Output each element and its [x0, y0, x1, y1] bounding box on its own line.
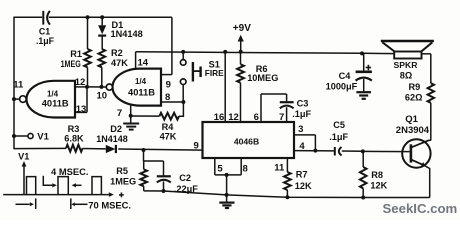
speaker SPKR 8 ohm [381, 41, 434, 80]
dimension 4 MSEC label and arrows [43, 166, 88, 188]
node junction C2 ground bus [162, 189, 166, 193]
svg-text:1N4148: 1N4148 [96, 134, 128, 144]
gate U1b ground pin 7 stub [117, 106, 131, 119]
wire gate U1a output to left rail [14, 98, 20, 100]
svg-text:13: 13 [76, 104, 87, 115]
svg-text:9: 9 [166, 80, 171, 91]
svg-text:1/4: 1/4 [135, 77, 147, 86]
node junction +9V rail R6 [239, 50, 243, 54]
node junction R2 bottom [100, 85, 104, 89]
svg-text:4046B: 4046B [234, 136, 259, 146]
resistor R1 [61, 17, 91, 87]
svg-text:12K: 12K [370, 180, 387, 190]
svg-text:C5: C5 [333, 120, 345, 130]
waveform V1 vertical axis arrow [22, 161, 27, 194]
svg-text:70 MSEC.: 70 MSEC. [88, 200, 131, 211]
svg-text:.1μF: .1μF [292, 109, 311, 119]
svg-text:8: 8 [165, 92, 170, 103]
wire left rail vertical [13, 17, 15, 150]
power +9V supply arrow [233, 23, 251, 52]
waveform V1 axis label [18, 151, 29, 161]
svg-text:47K: 47K [160, 132, 177, 142]
wire 4046B pin 16 to +9V rail [224, 52, 226, 122]
svg-text:7: 7 [279, 112, 284, 123]
svg-text:C1: C1 [39, 26, 50, 36]
node junction pin 8 / S1 / R4 [181, 100, 185, 104]
svg-text:R1: R1 [70, 49, 82, 59]
wire 4046B pin 3 to pin 4 [294, 135, 315, 151]
resistor R4 47K [131, 102, 184, 142]
gate U1b input pin 8 [161, 92, 183, 103]
svg-text:V1: V1 [37, 132, 49, 143]
wire 4046B pins 5 and 8 jumper [215, 158, 241, 175]
op-gate U1a NAND 4011B (mirrored) [26, 81, 75, 118]
waveform pulse 1 [27, 177, 36, 195]
node junction R8 ground bus [361, 196, 365, 200]
resistor R2 [99, 48, 129, 87]
node junction Q1 base R8 C5 [361, 149, 365, 153]
gate U1a output bubble pin 11 [13, 79, 26, 102]
node junction C4 on rail [360, 51, 364, 55]
svg-text:R9: R9 [409, 82, 421, 92]
svg-text:10MEG: 10MEG [247, 73, 278, 83]
svg-text:FIRE: FIRE [205, 68, 224, 78]
svg-text:4011B: 4011B [42, 99, 69, 109]
wire tie bar pins 12-13 [86, 87, 88, 113]
wire ground bus [144, 191, 430, 198]
svg-text:2N3904: 2N3904 [396, 125, 430, 136]
svg-text:12: 12 [75, 77, 86, 88]
node junction top rail R1 [86, 15, 90, 19]
op-gate U1b NAND 4011B (mirrored) [113, 69, 161, 106]
svg-text:11: 11 [13, 79, 24, 90]
resistor R9 62 ohm [405, 82, 434, 141]
waveform baseline with arrow [3, 192, 124, 197]
svg-text:10: 10 [97, 90, 108, 101]
svg-text:7: 7 [117, 108, 122, 119]
node junction ground bus [225, 193, 229, 197]
gate U1b output bubble pin 10 [97, 84, 113, 101]
svg-text:R7: R7 [296, 170, 308, 180]
resistor R3 6.8K [64, 124, 84, 152]
svg-text:.22μF: .22μF [174, 184, 198, 194]
waveform pulse 3 [92, 177, 101, 195]
node junction left rail gate output [12, 97, 16, 101]
node junction top rail D1 [100, 15, 104, 19]
resistor R6 10MEG [237, 52, 278, 122]
svg-text:3: 3 [298, 124, 303, 135]
wire bottom row R3-D2 to 4046B pin 9 [14, 148, 203, 150]
svg-text:47K: 47K [111, 58, 128, 68]
gate U1b power pin 14 stub to +9V rail [136, 52, 149, 69]
svg-text:C3: C3 [297, 99, 309, 109]
svg-text:6.8K: 6.8K [64, 134, 84, 144]
svg-text:8: 8 [243, 164, 248, 175]
capacitor C5 .1uF [329, 120, 363, 155]
svg-text:R5: R5 [116, 166, 128, 176]
svg-text:C2: C2 [179, 173, 191, 183]
svg-text:1/4: 1/4 [47, 89, 59, 98]
svg-text:R4: R4 [162, 122, 175, 132]
wire +9V rail [136, 52, 395, 54]
wire pin12 to gate2 output [87, 86, 106, 88]
svg-text:4011B: 4011B [128, 88, 155, 98]
svg-text:12: 12 [228, 112, 239, 123]
ground symbol below C4 [356, 92, 371, 99]
capacitor C3 .1uF between pins 6 and 7 [261, 94, 311, 122]
node junction jumper center [225, 173, 229, 177]
IC U2 4046B [194, 112, 306, 174]
svg-text:1N4148: 1N4148 [111, 29, 143, 39]
svg-text:C4: C4 [339, 71, 352, 81]
gate U1a input pin 12 [75, 77, 87, 88]
gate U1b input pin 9 [161, 75, 172, 91]
node junction pin12 R1 [85, 85, 89, 89]
svg-text:6: 6 [254, 112, 259, 123]
capacitor C4 1000uF polarized [326, 53, 372, 91]
node junction D2 output R5 C2 [142, 148, 146, 152]
wire jumper to ground bus [226, 175, 228, 195]
svg-text:.1μF: .1μF [36, 36, 55, 46]
svg-text:V1: V1 [18, 151, 29, 161]
svg-text:4 MSEC.: 4 MSEC. [51, 166, 89, 177]
svg-text:SPKR: SPKR [394, 60, 419, 70]
resistor R5 1MEG [110, 161, 147, 191]
node junction S1 on +9V rail [181, 50, 185, 54]
svg-text:11: 11 [274, 163, 285, 174]
transistor Q1 2N3904 NPN [396, 114, 431, 198]
ground symbol at gate U1b pin 7 [123, 116, 139, 130]
resistor R8 12K [360, 151, 388, 197]
waveform pulse 2 [58, 177, 68, 195]
switch S1 FIRE pushbutton [180, 52, 224, 102]
svg-text:Q1: Q1 [405, 114, 418, 125]
watermark SeekIC.com [383, 201, 458, 216]
capacitor C1 [36, 11, 55, 46]
wire 4046B pin 4 output [294, 150, 334, 152]
node junction V1 tap [12, 134, 16, 138]
capacitor C2 .22uF [157, 161, 198, 194]
svg-text:1MEG: 1MEG [110, 177, 136, 187]
gate U1a input pin 13 [75, 104, 87, 115]
wire base junction to Q1 [363, 150, 410, 152]
diode D1 1N4148 [98, 17, 142, 49]
svg-text:SeekIC.com: SeekIC.com [383, 201, 458, 216]
resistor R7 12K [284, 158, 312, 197]
svg-text:1MEG: 1MEG [61, 59, 81, 69]
terminal V1 [14, 132, 50, 143]
wire junction down to R5 C2 bridge [144, 150, 164, 161]
svg-text:9: 9 [194, 140, 199, 151]
svg-text:R2: R2 [111, 48, 123, 58]
ground symbol below 4046B [219, 195, 234, 208]
dimension 70 MSEC label and arrows [16, 198, 132, 210]
svg-text:62Ω: 62Ω [405, 93, 423, 103]
diode D2 1N4148 [96, 124, 128, 153]
svg-text:D2: D2 [110, 124, 122, 134]
svg-text:R8: R8 [371, 170, 383, 180]
svg-text:16: 16 [214, 112, 225, 123]
wire top rail feedback net [14, 17, 172, 74]
svg-text:14: 14 [138, 58, 149, 69]
wire speaker to R9 [422, 54, 431, 83]
svg-text:+9V: +9V [233, 23, 251, 34]
node junction R7 ground bus [285, 195, 289, 199]
node junction pin 7 R4 ground [129, 114, 133, 118]
svg-text:.1μF: .1μF [329, 132, 348, 142]
svg-text:1000μF: 1000μF [326, 82, 358, 92]
node junction pin16 rail [223, 50, 227, 54]
svg-text:8Ω: 8Ω [400, 70, 412, 80]
svg-text:12K: 12K [295, 181, 312, 191]
node junction pins 3-4 [313, 149, 317, 153]
svg-text:5: 5 [217, 164, 223, 175]
